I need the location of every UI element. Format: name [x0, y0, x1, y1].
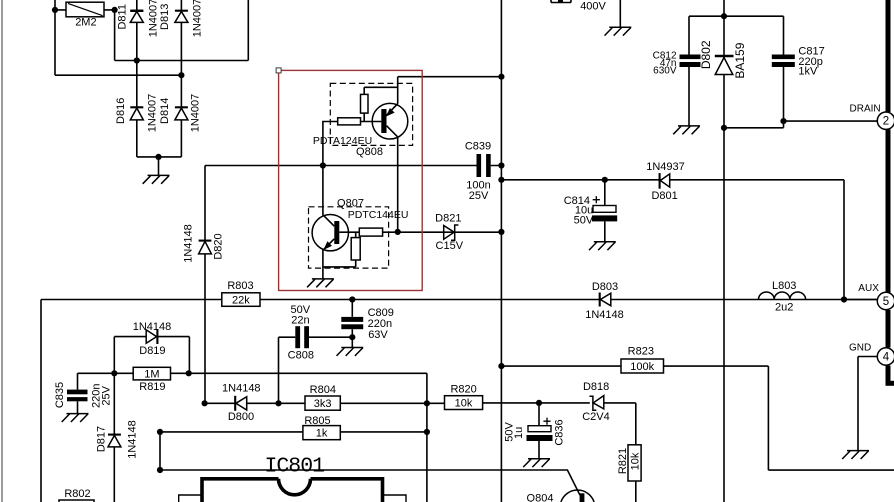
svg-text:22k: 22k: [232, 295, 250, 307]
svg-text:C839: C839: [465, 141, 491, 153]
svg-text:1N4148: 1N4148: [222, 383, 261, 395]
svg-text:R803: R803: [227, 280, 253, 292]
svg-text:GND: GND: [849, 342, 871, 353]
svg-text:D803: D803: [592, 281, 618, 293]
svg-text:3k3: 3k3: [314, 398, 332, 410]
svg-text:D820: D820: [212, 233, 224, 259]
svg-text:1u: 1u: [513, 427, 525, 439]
svg-text:R821: R821: [617, 448, 629, 474]
svg-text:PDTC144EU: PDTC144EU: [348, 209, 409, 221]
svg-text:R819: R819: [139, 381, 165, 393]
svg-text:C2V4: C2V4: [582, 411, 610, 423]
svg-text:10k: 10k: [630, 452, 642, 470]
svg-text:100k: 100k: [630, 361, 654, 373]
svg-text:BA159: BA159: [733, 42, 747, 78]
svg-text:1N4148: 1N4148: [585, 309, 624, 321]
svg-text:400V: 400V: [580, 1, 606, 13]
svg-text:D811: D811: [117, 4, 129, 29]
svg-text:1N4937: 1N4937: [646, 161, 685, 173]
svg-text:D802: D802: [699, 40, 713, 69]
svg-text:Q807: Q807: [337, 197, 364, 209]
svg-text:C808: C808: [288, 350, 314, 362]
svg-text:630V: 630V: [653, 66, 677, 77]
svg-text:1kV: 1kV: [798, 66, 818, 78]
svg-text:C836: C836: [553, 419, 565, 445]
svg-text:DRAIN: DRAIN: [850, 104, 881, 115]
svg-text:AUX: AUX: [858, 283, 879, 294]
svg-text:5: 5: [883, 296, 889, 308]
svg-text:4: 4: [883, 352, 890, 364]
svg-text:63V: 63V: [368, 329, 388, 341]
svg-text:D801: D801: [651, 190, 677, 202]
svg-text:D818: D818: [583, 381, 609, 393]
svg-text:10k: 10k: [455, 398, 473, 410]
svg-text:R823: R823: [628, 346, 654, 358]
svg-text:C15V: C15V: [436, 240, 464, 252]
svg-text:D817: D817: [95, 426, 107, 452]
svg-text:2M2: 2M2: [75, 17, 96, 29]
svg-text:D800: D800: [228, 411, 254, 423]
svg-text:2u2: 2u2: [775, 301, 793, 313]
svg-text:1N4007: 1N4007: [146, 94, 158, 133]
svg-text:2: 2: [883, 116, 889, 128]
svg-text:R805: R805: [304, 415, 330, 427]
svg-text:1k: 1k: [316, 428, 328, 440]
svg-text:1M: 1M: [144, 369, 159, 381]
svg-text:1N4148: 1N4148: [133, 321, 172, 333]
svg-text:R820: R820: [450, 384, 476, 396]
svg-text:1N4007: 1N4007: [189, 94, 201, 133]
svg-text:1N4007: 1N4007: [191, 0, 203, 37]
svg-text:Q804: Q804: [527, 493, 554, 502]
svg-text:25V: 25V: [101, 385, 113, 405]
svg-text:D816: D816: [115, 98, 127, 124]
svg-text:50V: 50V: [574, 214, 594, 226]
svg-text:D814: D814: [159, 98, 171, 124]
svg-text:Q808: Q808: [356, 146, 383, 158]
svg-text:R802: R802: [64, 488, 90, 500]
svg-text:D819: D819: [139, 345, 165, 357]
svg-text:1N4148: 1N4148: [127, 420, 139, 459]
svg-text:R804: R804: [310, 384, 336, 396]
svg-text:IC801: IC801: [265, 455, 325, 479]
svg-text:22n: 22n: [291, 314, 309, 326]
svg-text:1N4007: 1N4007: [148, 0, 160, 37]
svg-text:C835: C835: [54, 382, 66, 408]
svg-text:D821: D821: [435, 212, 461, 224]
svg-text:D813: D813: [159, 4, 171, 30]
svg-text:1N4148: 1N4148: [182, 224, 194, 263]
svg-text:L803: L803: [772, 280, 796, 292]
svg-text:25V: 25V: [469, 190, 489, 202]
